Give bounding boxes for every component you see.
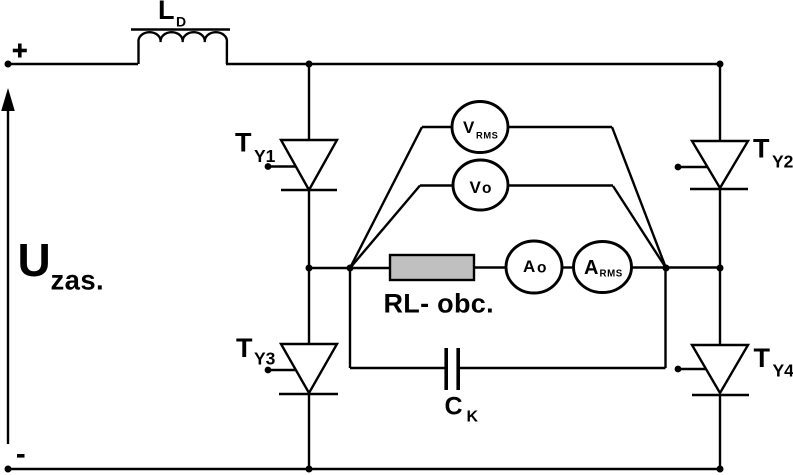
label TY1: [235, 128, 276, 167]
wire right branch bottom (TY4 to bottom bus): [719, 394, 721, 469]
wire Vo left: [350, 186, 454, 269]
svg-text:A: A: [584, 257, 598, 279]
svg-text:T: T: [754, 343, 771, 373]
inductor LD: [131, 30, 230, 65]
ammeter Arms: [574, 242, 632, 293]
gate dot TY3: [265, 367, 272, 374]
svg-text:zas.: zas.: [51, 265, 105, 296]
svg-text:T: T: [236, 333, 253, 363]
svg-text:RMS: RMS: [476, 131, 498, 141]
thyristor TY3: [268, 344, 338, 394]
svg-text:C: C: [445, 393, 463, 421]
thyristor TY1: [268, 140, 337, 190]
svg-text:Y3: Y3: [254, 349, 276, 369]
node bottom right: [717, 466, 724, 473]
wire Ao to Arms: [562, 266, 575, 268]
node mid left fan: [347, 265, 354, 272]
svg-text:L: L: [158, 0, 175, 25]
gate dot TY4: [675, 366, 682, 373]
wire Vo right: [507, 186, 666, 269]
wire left branch lower (mid node to TY3): [308, 268, 310, 344]
node bottom left: [5, 466, 12, 473]
label Uzas.: [18, 234, 105, 296]
minus terminal: [17, 454, 25, 458]
svg-text:o: o: [537, 259, 546, 276]
svg-text:A: A: [523, 257, 535, 276]
wire cap loop right vertical: [664, 268, 666, 368]
node bottom mid: [306, 466, 313, 473]
label TY2: [753, 134, 793, 172]
svg-text:Y4: Y4: [773, 361, 793, 381]
node mid left bridge: [306, 265, 313, 272]
plus terminal: [13, 44, 27, 58]
label CK: [445, 393, 479, 426]
wire Vrms right: [508, 127, 667, 268]
resistor RL load: [390, 255, 474, 280]
svg-text:Y2: Y2: [772, 152, 793, 172]
node top left: [5, 61, 12, 68]
label LD: [158, 0, 186, 30]
svg-text:Y1: Y1: [254, 146, 276, 166]
ammeter Ao: [506, 241, 562, 293]
svg-text:o: o: [482, 180, 491, 197]
svg-text:U: U: [18, 234, 51, 286]
wire left branch bottom (TY3 to bottom bus): [308, 393, 310, 469]
wire top bus left of inductor: [8, 63, 138, 65]
wire resistor to Ao: [474, 266, 507, 268]
svg-text:D: D: [176, 14, 186, 30]
wire right branch lower (mid node to TY4): [719, 268, 721, 345]
thyristor TY4: [678, 345, 749, 395]
wire right branch middle (TY2 to mid node): [719, 189, 721, 268]
svg-text:RL- obc.: RL- obc.: [384, 289, 494, 319]
capacitor CK: [446, 348, 458, 390]
wire right branch upper (top bus to TY2): [719, 64, 721, 141]
label TY3: [236, 333, 276, 369]
wire cap loop right horizontal: [460, 367, 666, 369]
svg-text:K: K: [467, 409, 479, 426]
thyristor TY2: [678, 141, 748, 189]
wire left branch middle (TY1 to mid node): [308, 190, 310, 268]
wire cap loop left vertical: [349, 268, 351, 368]
svg-text:V: V: [463, 118, 475, 137]
wire top bus right of inductor: [226, 63, 720, 65]
label TY4: [754, 343, 793, 381]
node top mid: [306, 61, 313, 68]
gate dot TY2: [675, 164, 682, 171]
svg-text:T: T: [235, 128, 252, 158]
svg-text:V: V: [470, 178, 482, 197]
wire bottom bus: [8, 468, 720, 470]
voltage source arrow Uzas: [1, 88, 15, 444]
wire mid rail left: [309, 267, 390, 269]
voltmeter Vo: [453, 160, 508, 210]
wire cap loop left horizontal: [350, 367, 445, 369]
wire left branch upper (top bus to TY1): [308, 64, 310, 140]
gate dot TY1: [265, 163, 272, 170]
node mid right bridge: [717, 265, 724, 272]
svg-text:RMS: RMS: [600, 269, 623, 280]
node mid right fan: [663, 265, 670, 272]
wire Arms to right mid node: [631, 266, 720, 268]
voltmeter Vrms: [452, 102, 508, 153]
svg-text:T: T: [753, 134, 770, 164]
wire Vrms left: [350, 127, 454, 268]
node top right: [717, 61, 724, 68]
